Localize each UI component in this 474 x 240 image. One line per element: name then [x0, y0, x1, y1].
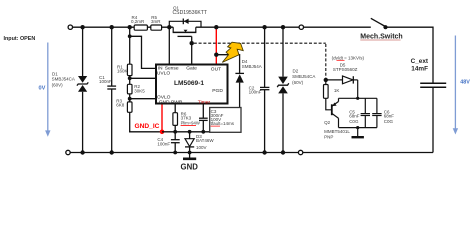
label D3	[196, 134, 214, 150]
svg-text:GND: GND	[159, 99, 170, 105]
node bottom rail junctions	[80, 150, 285, 154]
svg-text:GND: GND	[181, 162, 199, 171]
svg-text:Input: OPEN: Input: OPEN	[4, 36, 36, 42]
node mid terminal top	[299, 25, 303, 29]
svg-text:PWR: PWR	[171, 99, 183, 105]
node top rail junctions	[80, 25, 285, 29]
label C_ext	[411, 58, 429, 73]
svg-text:PGD: PGD	[212, 88, 223, 94]
svg-text:IN: IN	[158, 65, 163, 71]
label Mech.Switch	[360, 34, 402, 41]
svg-text:D2: D2	[293, 68, 299, 73]
label C2	[249, 85, 262, 94]
svg-text:48V: 48V	[460, 80, 470, 86]
node GND_IC red dot	[160, 130, 165, 135]
wire cap bank bottom rail	[339, 127, 377, 129]
label D5	[332, 55, 365, 72]
capacitor C4	[171, 132, 180, 153]
node dvdt input	[324, 78, 328, 82]
label R5	[151, 15, 161, 24]
label Q2	[324, 120, 350, 140]
node D3 bottom junction	[188, 151, 192, 155]
node C4 top junction	[173, 130, 177, 134]
node OVLO tap junction	[128, 97, 132, 101]
label R4	[131, 15, 145, 24]
wire OVLO tap	[130, 98, 156, 100]
label R6	[181, 112, 200, 126]
svg-text:C0G: C0G	[349, 119, 359, 124]
node collector junction	[356, 126, 359, 129]
wire bottom rail	[70, 152, 433, 154]
capacitor C2	[260, 27, 269, 152]
svg-text:GND_IC: GND_IC	[135, 123, 160, 130]
svg-text:6K8: 6K8	[116, 103, 125, 108]
svg-text:Plim=94W: Plim=94W	[181, 120, 200, 125]
label R1	[117, 64, 128, 73]
wire GND_IC net	[162, 131, 240, 133]
svg-text:STPS0560Z: STPS0560Z	[333, 67, 358, 72]
wire R3 to GND_IC node	[130, 131, 162, 132]
node D4 branch junction	[214, 53, 218, 57]
capacitor C_ext	[420, 83, 446, 87]
svg-text:UVLO: UVLO	[157, 71, 171, 77]
svg-text:100nF: 100nF	[157, 141, 170, 146]
transistor Q2 PNP	[326, 98, 339, 127]
svg-text:D1: D1	[52, 71, 58, 76]
resistor R6	[173, 105, 178, 132]
svg-text:LM5069-1: LM5069-1	[174, 80, 204, 87]
svg-text:Sense: Sense	[165, 65, 179, 71]
node jog junction	[128, 34, 132, 38]
node UVLO tap junction	[128, 76, 132, 80]
diode D5	[326, 76, 358, 84]
label C1	[99, 75, 112, 84]
capacitor C6	[372, 98, 381, 127]
lightning bolt	[222, 42, 243, 62]
svg-text:SMBJ54CA: SMBJ54CA	[52, 77, 75, 82]
capacitor C5	[361, 98, 370, 127]
svg-text:C0G: C0G	[384, 119, 394, 124]
node input terminal bottom	[66, 150, 70, 154]
svg-text:0,2mR: 0,2mR	[131, 19, 145, 24]
svg-text:MMBT5401L: MMBT5401L	[324, 129, 350, 134]
wire IN pin jog	[130, 36, 156, 68]
wire D5 drop	[357, 80, 359, 98]
wire top rail	[73, 27, 433, 152]
label D2	[292, 68, 315, 85]
svg-text:tfault=14ms: tfault=14ms	[211, 121, 235, 126]
node switch contact	[383, 25, 387, 29]
label R2	[134, 84, 145, 93]
wire D4 branch	[216, 55, 239, 73]
wire GND_IC red	[161, 105, 163, 132]
ground dvdt	[352, 128, 364, 138]
svg-text:14mF: 14mF	[411, 66, 428, 73]
svg-text:1K: 1K	[334, 88, 340, 93]
svg-text:Q2: Q2	[324, 120, 331, 125]
svg-text:PNP: PNP	[324, 135, 333, 140]
svg-text:160K: 160K	[117, 68, 128, 73]
svg-text:SMBJ54A: SMBJ54A	[242, 64, 262, 69]
capacitor C1	[107, 27, 116, 152]
diode D1 TVS	[77, 27, 88, 152]
svg-text:30K5: 30K5	[134, 88, 145, 93]
diode D4	[235, 73, 244, 131]
svg-text:(dv/dt = 13KV/s): (dv/dt = 13KV/s)	[332, 55, 365, 60]
ground	[181, 153, 199, 172]
resistor R4	[134, 25, 147, 30]
node input terminal top	[68, 25, 72, 29]
svg-text:Timer: Timer	[198, 99, 211, 105]
resistor R3	[127, 102, 132, 132]
wire gate to IC	[191, 36, 193, 64]
svg-text:SMBJ54CA: SMBJ54CA	[292, 74, 315, 79]
diode D2 TVS	[277, 27, 289, 152]
svg-text:100nF: 100nF	[249, 89, 262, 94]
label D4	[242, 59, 262, 69]
label D1	[52, 71, 75, 87]
node gate junction	[190, 41, 194, 45]
label C6	[384, 109, 395, 123]
node D5 drop junction	[356, 97, 359, 100]
svg-text:OUT: OUT	[211, 66, 221, 72]
resistor 1K	[324, 80, 329, 98]
svg-text:C_ext: C_ext	[411, 58, 429, 65]
transistor Q1 MOSFET	[169, 19, 201, 37]
wire UVLO tap	[130, 77, 156, 79]
label C3 box	[210, 108, 241, 133]
wire sense pin	[168, 27, 170, 64]
node C3 junction	[201, 130, 205, 134]
wire 48V arrow	[453, 36, 458, 135]
svg-text:Gate: Gate	[186, 65, 197, 71]
svg-text:CSD19536KTT: CSD19536KTT	[173, 10, 208, 16]
node C4 bottom junction	[173, 151, 177, 155]
svg-text:3mR: 3mR	[151, 19, 161, 24]
svg-text:0V: 0V	[39, 86, 46, 92]
op-amp U1 LM5069 box	[156, 65, 228, 104]
wire cap bank top rail	[339, 97, 377, 99]
svg-text:100V: 100V	[196, 145, 207, 150]
label Q1	[173, 5, 208, 16]
resistor R2	[127, 84, 132, 102]
node mid terminal bottom	[298, 150, 302, 154]
capacitor C3	[199, 105, 208, 132]
svg-text:BAT46W: BAT46W	[196, 138, 214, 143]
svg-text:(60V): (60V)	[52, 83, 64, 88]
switch blade	[371, 18, 386, 26]
resistor R1	[127, 27, 132, 84]
resistor R5	[151, 25, 162, 30]
wire OUT red riser	[215, 27, 217, 64]
wire 0V arrow	[45, 43, 50, 137]
diode D3	[185, 132, 194, 153]
svg-text:(60V): (60V)	[292, 80, 304, 85]
label R3	[116, 99, 125, 108]
wire dashed gate link	[194, 43, 326, 78]
label C5	[349, 109, 360, 123]
svg-text:100nF: 100nF	[99, 79, 112, 84]
node D3 top junction	[188, 130, 192, 134]
label C4	[157, 137, 170, 146]
